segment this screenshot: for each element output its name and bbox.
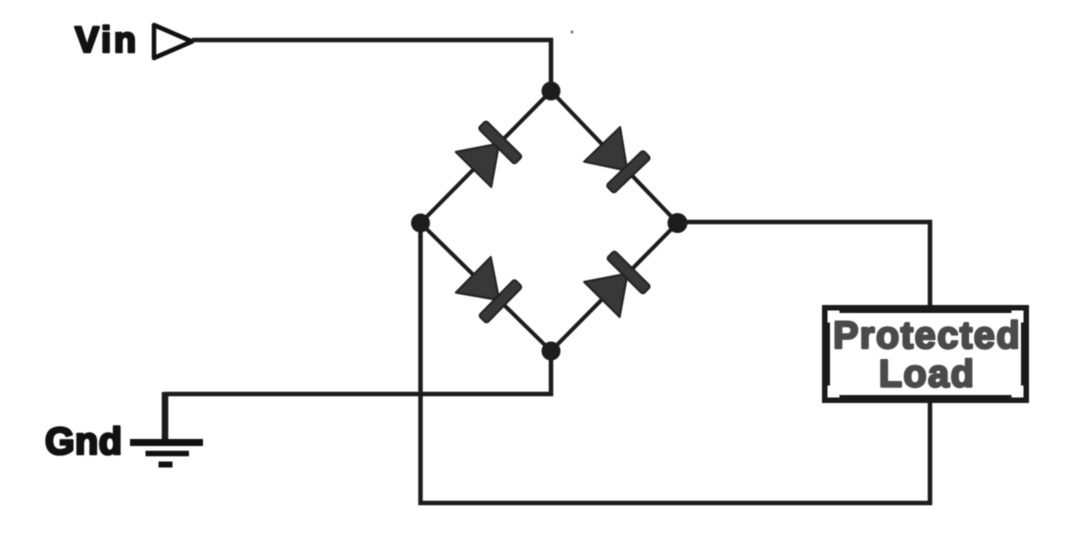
node left junction dot (411, 214, 430, 233)
wire bridge diagonal top-right (551, 91, 678, 223)
wire right node to protected load top (678, 222, 931, 305)
protected load box (826, 309, 1025, 399)
wire left node to bottom rail to load bottom (421, 223, 931, 503)
wire bridge diagonal bottom-right (551, 223, 678, 351)
node top junction dot (542, 82, 561, 101)
diode D3 (left node to bottom node) (455, 257, 522, 324)
protected load box inner corner highlights (828, 311, 1024, 398)
wire bridge diagonal left-top (421, 91, 552, 223)
svg-text:Load: Load (879, 354, 975, 396)
diode D1 (left node to top node) (455, 121, 522, 188)
wire bridge diagonal left-bottom (421, 223, 552, 351)
node right junction dot (668, 213, 688, 233)
speck artifact (571, 31, 574, 34)
diode D4 (bottom node to right node) (584, 251, 651, 318)
wire ground stub (162, 392, 169, 440)
svg-text:Protected: Protected (833, 315, 1021, 357)
node bottom junction dot (542, 342, 561, 361)
svg-text:Gnd: Gnd (45, 421, 122, 463)
ground symbol (130, 443, 203, 465)
diode D2 (top node to right node) (584, 127, 651, 194)
wire bottom node down to ground rail (165, 351, 552, 394)
svg-text:Vin: Vin (75, 19, 139, 60)
port symbol Vin (input triangle) (154, 25, 192, 58)
wire Vin to top node (192, 40, 551, 91)
